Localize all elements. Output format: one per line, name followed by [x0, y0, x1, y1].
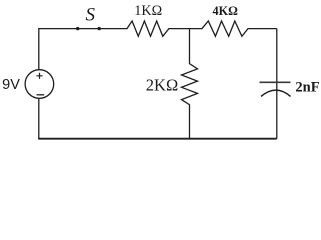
svg-text:2nF: 2nF	[295, 79, 319, 95]
svg-text:S: S	[85, 5, 95, 26]
svg-text:9V: 9V	[2, 77, 20, 93]
svg-text:2KΩ: 2KΩ	[146, 75, 178, 94]
svg-text:4KΩ: 4KΩ	[213, 4, 239, 18]
svg-text:1KΩ: 1KΩ	[134, 3, 162, 19]
